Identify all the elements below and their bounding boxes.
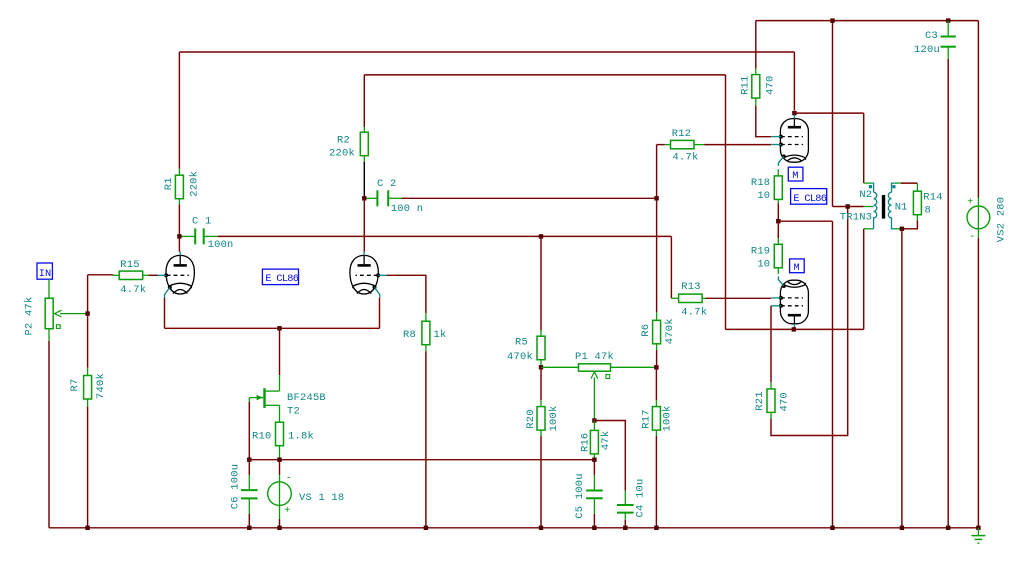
wire R14 bottom to N1 xyxy=(902,221,918,229)
wire down to R13 xyxy=(670,236,672,298)
junction N1 ground xyxy=(900,526,904,530)
wire R15 to V1 grid xyxy=(149,274,158,276)
resistor R11 xyxy=(755,69,757,75)
pentode V4 (ECL86 pentode, inverted) xyxy=(780,280,808,324)
wire R6 column xyxy=(656,198,658,312)
junction top rail left xyxy=(830,18,834,22)
connector IN frame xyxy=(37,263,52,279)
resistor R8 xyxy=(425,313,427,321)
svg-text:+: + xyxy=(284,506,291,517)
wire preamp B+ rail xyxy=(179,51,794,53)
svg-text:R13: R13 xyxy=(681,281,700,293)
wire upper plate to transformer xyxy=(794,112,863,114)
junction gate node xyxy=(247,458,251,462)
junction R5 node xyxy=(539,234,543,238)
frame M lower xyxy=(790,259,805,273)
junction C1 node xyxy=(177,234,181,238)
svg-text:R19: R19 xyxy=(751,246,770,258)
wire C2 to R12 column xyxy=(401,197,656,199)
wire R11 to screen grid xyxy=(756,106,771,137)
junction P1 right xyxy=(654,365,658,369)
junction P1 left xyxy=(539,365,543,369)
svg-text:P1 47k: P1 47k xyxy=(575,351,614,363)
junction C2-R12 node xyxy=(654,196,658,200)
resistor R5 xyxy=(540,330,542,336)
svg-text:M: M xyxy=(792,170,798,182)
triode V2 (ECL86 triode b) xyxy=(350,255,378,294)
resistor R7 xyxy=(87,368,89,376)
resistor R13 xyxy=(671,297,678,299)
gate frame ECL86 right xyxy=(791,189,827,205)
wire V2 plate rail down xyxy=(725,75,727,330)
junction R20 ground xyxy=(539,526,543,530)
resistor R20 xyxy=(540,400,542,406)
wire to lower pentode plate xyxy=(726,328,794,330)
wire VS2 to ground rail xyxy=(977,238,979,528)
svg-text:100 n: 100 n xyxy=(391,203,423,215)
junction R16 bottom xyxy=(592,458,596,462)
wire R18 to bias node xyxy=(777,204,779,222)
wire C1 node to V1 plate xyxy=(178,236,180,252)
svg-text:VS2 280: VS2 280 xyxy=(996,197,1008,242)
svg-text:470: 470 xyxy=(765,75,777,94)
wire R1 top xyxy=(178,169,180,175)
wire R1 to C1 node xyxy=(178,205,180,237)
wire lower plate to transformer xyxy=(794,328,864,330)
resistor R10 xyxy=(276,422,284,446)
source VS1 xyxy=(279,460,281,475)
svg-text:10: 10 xyxy=(757,190,770,202)
svg-text:8: 8 xyxy=(925,205,932,217)
wire N1 top to R14 xyxy=(901,182,918,184)
junction lower plate xyxy=(792,327,796,331)
wire B+ drop to center tap xyxy=(832,21,834,207)
svg-text:P2 47k: P2 47k xyxy=(24,297,36,336)
junction bias ground xyxy=(830,526,834,530)
svg-text:120u: 120u xyxy=(914,44,940,56)
svg-text:R5: R5 xyxy=(515,336,528,348)
svg-text:R1: R1 xyxy=(163,177,175,190)
svg-text:220k: 220k xyxy=(329,148,355,160)
svg-text:IN: IN xyxy=(39,268,51,280)
wire P2 bottom to ground xyxy=(48,341,50,528)
svg-text:R11: R11 xyxy=(740,75,752,94)
triode V1 (ECL86 triode a) xyxy=(166,255,194,294)
wire R7 to ground rail xyxy=(87,407,89,528)
resistor R21 xyxy=(770,382,772,389)
junction R17 ground xyxy=(654,526,658,530)
junction P1 wiper node xyxy=(592,418,596,422)
svg-text:R17: R17 xyxy=(641,409,653,428)
resistor R6 xyxy=(656,312,658,320)
svg-text:R7: R7 xyxy=(69,379,81,392)
junction N1 bottom xyxy=(900,227,904,231)
wire B+ rail drop to upper plate xyxy=(793,52,795,111)
wire plate rail of V2 triode xyxy=(364,74,725,76)
wire N1 bottom to ground xyxy=(901,229,903,528)
svg-text:-: - xyxy=(969,232,976,243)
svg-text:740k: 740k xyxy=(95,373,107,399)
svg-text:4.7k: 4.7k xyxy=(120,284,146,296)
svg-text:R6: R6 xyxy=(640,324,652,337)
wire wiper node down to R7 xyxy=(87,314,89,368)
svg-text:100n: 100n xyxy=(208,239,234,251)
capacitor C5 xyxy=(593,460,595,475)
wire R19 top xyxy=(777,221,779,238)
junction center tap xyxy=(846,204,850,208)
svg-text:R2: R2 xyxy=(337,135,350,147)
wire R17 to ground xyxy=(655,436,657,528)
pin IN to P2 xyxy=(48,279,50,298)
junction R7 ground xyxy=(85,526,89,530)
wire R6 to P1 xyxy=(656,350,658,367)
svg-text:R18: R18 xyxy=(751,177,770,189)
svg-text:100k: 100k xyxy=(548,406,560,432)
junction C5 ground xyxy=(592,526,596,530)
svg-text:C4 10u: C4 10u xyxy=(634,479,646,518)
junction P2 wiper xyxy=(85,311,89,315)
svg-text:-: - xyxy=(286,473,293,484)
transformer TR1 secondary N1 xyxy=(892,183,895,192)
svg-text:R14: R14 xyxy=(923,192,942,204)
junction C6 ground xyxy=(247,526,251,530)
gate frame ECL86 left xyxy=(262,269,298,285)
svg-text:R8: R8 xyxy=(403,329,416,341)
resistor R18 xyxy=(777,169,779,176)
capacitor C4 xyxy=(624,491,626,505)
ground xyxy=(977,528,979,536)
svg-text:R20: R20 xyxy=(525,409,537,428)
resistor R19 xyxy=(777,238,779,244)
svg-text:M: M xyxy=(794,262,800,274)
resistor R16 xyxy=(593,421,595,431)
junction C3 ground xyxy=(946,526,950,530)
resistor R17 xyxy=(655,367,657,400)
capacitor C1 xyxy=(182,235,195,237)
wire drop to R2 xyxy=(363,75,365,127)
wire R5 column xyxy=(540,236,542,330)
svg-text:470k: 470k xyxy=(664,318,676,344)
svg-text:N1: N1 xyxy=(895,202,908,214)
svg-text:470: 470 xyxy=(779,392,791,411)
junction R10 bottom xyxy=(277,458,281,462)
resistor R14 xyxy=(916,183,918,191)
capacitor C3 xyxy=(947,21,949,37)
svg-text:R16: R16 xyxy=(579,433,591,452)
wire T2 gate down xyxy=(248,402,250,460)
wire B+ rail drop to R1 xyxy=(178,52,180,169)
svg-text:100k: 100k xyxy=(661,406,673,432)
wire top B+ rail xyxy=(756,20,979,22)
svg-text:C6 100u: C6 100u xyxy=(229,464,241,509)
capacitor C2 xyxy=(366,197,377,199)
wire R2 to C2 node (black) xyxy=(363,162,365,199)
wire P2 wiper node up xyxy=(87,275,89,314)
svg-text:+: + xyxy=(967,197,974,208)
svg-text:R21: R21 xyxy=(754,391,766,410)
resistor R15 xyxy=(113,274,119,276)
wire bottom ground rail xyxy=(49,527,978,529)
wire R8 to ground xyxy=(425,352,427,528)
svg-text:470k: 470k xyxy=(507,351,533,363)
frame M upper xyxy=(788,167,803,181)
wire cathode rail to T2 drain xyxy=(279,328,281,375)
wire P1 wiper to C4 xyxy=(594,421,625,491)
resistor R2 xyxy=(363,127,365,132)
wire R21 to center tap riser xyxy=(771,207,848,436)
svg-text:1.8k: 1.8k xyxy=(288,431,314,443)
wire VS1 to ground xyxy=(279,519,281,528)
wire C2 node to V2 plate xyxy=(363,198,365,252)
svg-text:E CL86: E CL86 xyxy=(793,193,826,205)
junction VS1 ground xyxy=(277,526,281,530)
svg-text:C 1: C 1 xyxy=(192,216,211,228)
svg-text:C3: C3 xyxy=(925,30,938,42)
svg-text:T2: T2 xyxy=(287,406,300,418)
wire R20 to ground xyxy=(540,436,542,528)
wire V2 cathode down xyxy=(379,298,381,329)
transformer TR1 primary N2/N3 xyxy=(864,182,872,184)
svg-text:47k: 47k xyxy=(600,431,612,450)
source VS2 xyxy=(977,198,979,207)
svg-text:N2: N2 xyxy=(859,189,872,201)
wire V2 grid to R8 xyxy=(387,275,426,313)
svg-text:VS 1 18: VS 1 18 xyxy=(299,492,344,504)
resistor R1 xyxy=(175,175,183,199)
svg-text:R10: R10 xyxy=(252,431,271,443)
junction C4 ground xyxy=(623,526,627,530)
wire bias node to ground drop xyxy=(778,220,832,222)
junction upper plate xyxy=(792,111,796,115)
wire R12 to upper grid xyxy=(704,144,771,146)
transformer core xyxy=(882,195,885,219)
wire R13 to lower grid xyxy=(706,297,771,299)
junction R8 ground xyxy=(424,526,428,530)
potentiometer P1 xyxy=(541,366,579,368)
junction cathode rail xyxy=(277,326,281,330)
svg-text:10: 10 xyxy=(757,259,770,271)
wire R20 column xyxy=(540,367,542,400)
svg-text:R12: R12 xyxy=(672,128,691,140)
junction cathode bias node xyxy=(776,219,780,223)
pentode V3 (ECL86 pentode) xyxy=(780,119,808,163)
svg-text:E CL86: E CL86 xyxy=(265,273,298,285)
junction ground symbol xyxy=(976,526,980,530)
wire right B+ drop to VS2 xyxy=(977,21,979,198)
wire cathode rail xyxy=(165,327,380,329)
wire screen to R21 xyxy=(770,306,772,383)
svg-text:220k: 220k xyxy=(189,171,201,197)
transistor T2 (BF245B) xyxy=(279,375,281,391)
svg-text:BF245B: BF245B xyxy=(287,392,326,404)
wire R11 top xyxy=(755,21,757,69)
svg-text:1k: 1k xyxy=(434,329,447,341)
capacitor C6 xyxy=(248,460,250,475)
wire V1 cathode down xyxy=(164,298,166,329)
junction C3 top xyxy=(946,18,950,22)
svg-text:TR1N3: TR1N3 xyxy=(840,212,872,224)
svg-text:C 2: C 2 xyxy=(377,178,396,190)
svg-text:C5 100u: C5 100u xyxy=(574,473,586,518)
svg-text:R15: R15 xyxy=(120,259,139,271)
potentiometer P2 xyxy=(45,298,53,329)
svg-text:4.7k: 4.7k xyxy=(673,152,699,164)
junction C2 node xyxy=(362,196,366,200)
wire bias node rail xyxy=(249,459,594,461)
wire C1 to phase inverter net xyxy=(218,235,672,237)
wire R12 left xyxy=(656,145,658,199)
svg-text:4.7k: 4.7k xyxy=(681,307,707,319)
resistor R12 xyxy=(665,144,671,146)
